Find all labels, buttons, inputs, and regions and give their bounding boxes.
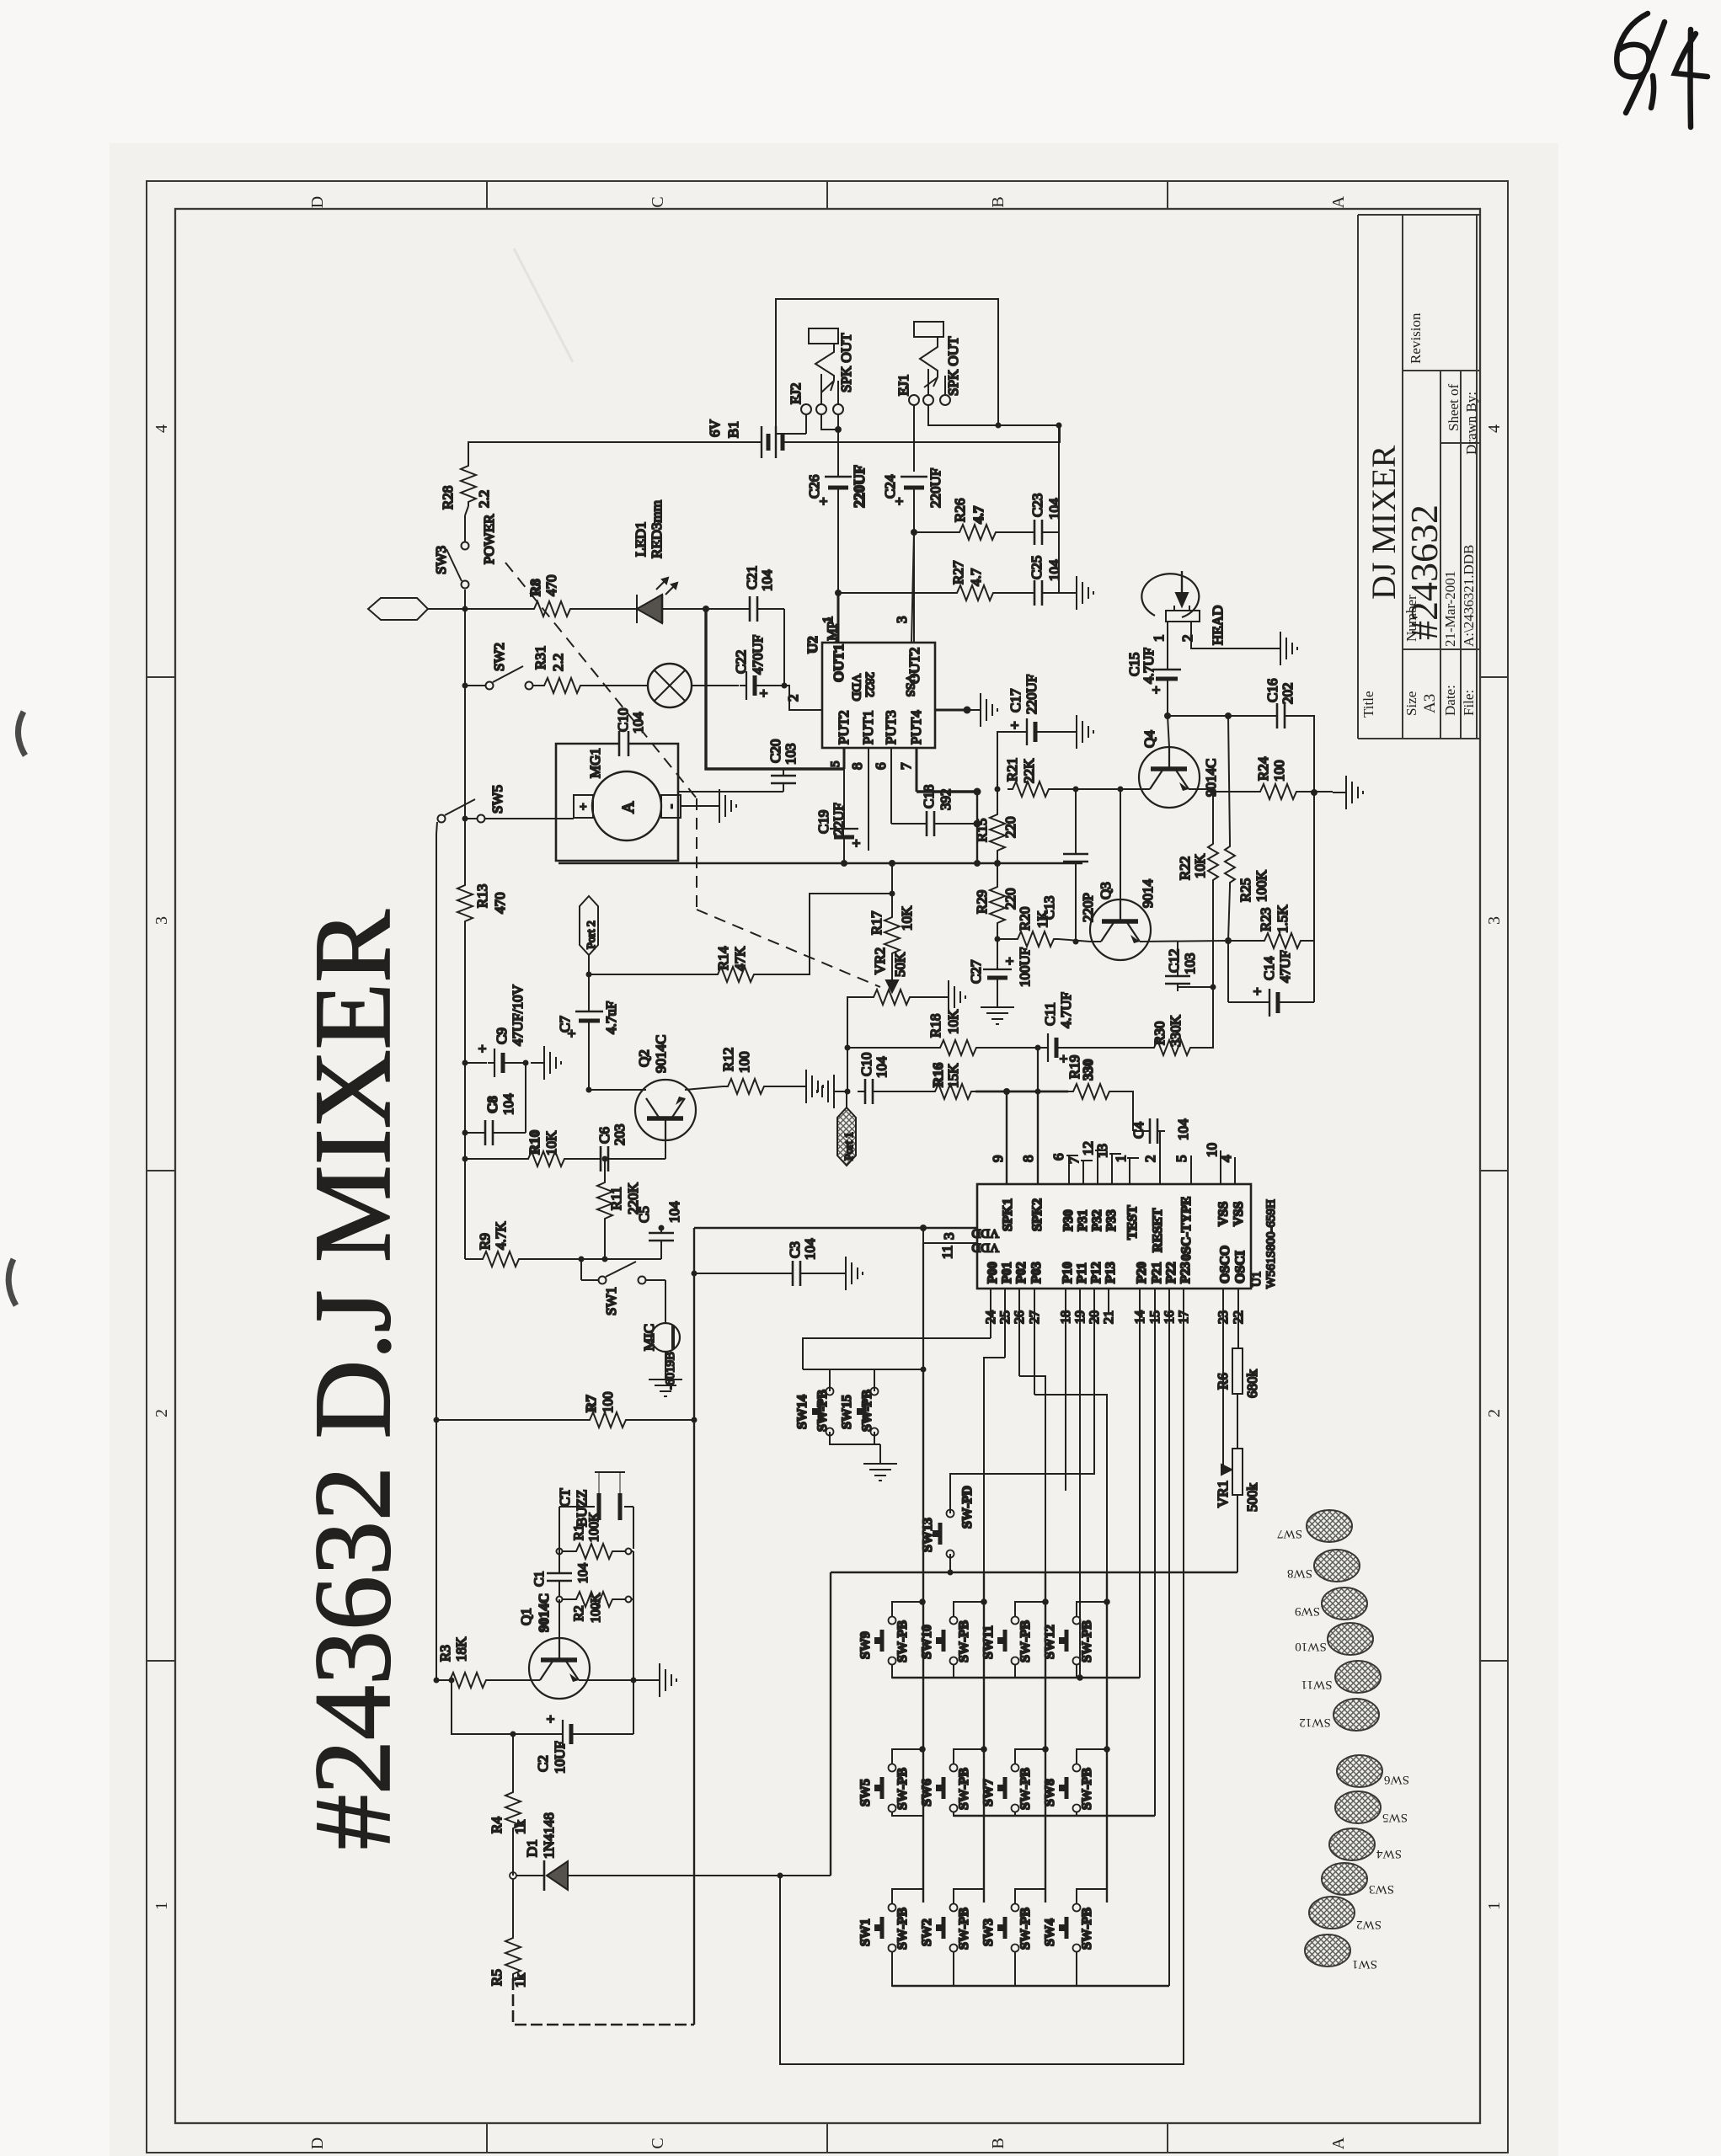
svg-text:104: 104 [1175,1118,1191,1140]
wire R23 left [1228,940,1259,942]
wire U1 pin10 stub [1220,1150,1221,1184]
resistor R6 box style [1232,1348,1243,1394]
svg-text:1: 1 [1485,1902,1504,1910]
svg-text:P00: P00 [986,1262,1000,1283]
svg-text:C7: C7 [557,1016,573,1033]
svg-text:P02: P02 [1014,1262,1029,1283]
svg-text:CT: CT [557,1488,573,1507]
svg-text:Sheet of: Sheet of [1446,383,1462,431]
svg-text:P03: P03 [1029,1262,1044,1283]
svg-text:470: 470 [543,575,559,597]
wire SW2 to R31 [533,685,539,686]
svg-text:4.7: 4.7 [970,505,986,524]
wire node to R24 [1213,791,1255,792]
svg-text:OSCI: OSCI [1233,1251,1248,1283]
wire U1 pin18 stub [1065,1289,1066,1491]
svg-text:C6: C6 [596,1127,612,1144]
wire pin25 link col2 [984,1358,1005,1572]
wire R8 to LED1 [575,608,637,610]
ground motor [706,789,736,823]
ground SW14 SW15 [879,1444,881,1450]
capacitor C17 polarized [1027,718,1035,745]
svg-text:MIC: MIC [641,1324,657,1351]
svg-text:R20: R20 [1017,907,1033,931]
pushbutton SW12 [1059,1617,1081,1665]
svg-text:SW-PB: SW-PB [1080,1620,1094,1662]
wire U1 pin22 stub [1237,1289,1239,1348]
wire C10 to R16 [880,1091,930,1092]
wire SW8 bottom hook [1077,1812,1107,1816]
wire C26 node to R27 [838,592,952,594]
svg-text:SPK2: SPK2 [1030,1198,1045,1231]
bold wire pin7 to right column [917,790,977,792]
wire right column down [1058,425,1060,532]
capacitor C2 polarized [556,1720,579,1748]
svg-text:SW-PB: SW-PB [895,1908,910,1950]
resistor R13 in rail [457,880,473,926]
svg-text:4.7uF: 4.7uF [603,1001,619,1034]
wire R10 to C6 [569,1158,593,1160]
svg-text:C12: C12 [1166,949,1182,973]
svg-text:R23: R23 [1258,908,1274,931]
LED LED1 [637,578,677,623]
transistor Q3 [1090,899,1151,960]
pad SW10 [1328,1623,1373,1655]
wire U1 pin12 stub [1097,1150,1098,1184]
svg-text:104: 104 [576,1563,591,1583]
wire U1 pin16 riser [1168,1289,1170,1986]
transistor Q2 [635,1080,696,1140]
node Q3 column top [1118,787,1124,792]
svg-text:104: 104 [802,1238,818,1260]
wire right column 940 to trunk [976,792,978,863]
wire C8 to corner [500,1132,526,1134]
svg-text:P12: P12 [1089,1262,1104,1283]
zone tick top B/A [1167,181,1168,209]
wire R26 to C23 [1000,531,1029,533]
svg-text:SW14: SW14 [795,1395,810,1429]
svg-text:C20: C20 [767,739,783,763]
wire R27 to C25 [997,592,1029,594]
svg-text:14: 14 [1133,1310,1147,1324]
svg-text:4: 4 [1485,424,1504,433]
jack EJ1 body [914,322,943,337]
svg-text:1.5K: 1.5K [1275,905,1291,933]
svg-text:330K: 330K [1168,1015,1184,1048]
svg-text:C11: C11 [1042,1002,1058,1026]
wire SW8 top hook [1077,1749,1107,1764]
svg-text:SW11: SW11 [981,1625,996,1659]
sheet inner border frame [175,209,1480,2123]
svg-text:R10: R10 [526,1130,542,1155]
svg-text:R22: R22 [1177,857,1193,880]
wire LED1 to bold node [662,608,706,610]
resistor R15 [990,809,1005,855]
node R17 column tap [890,891,895,897]
resistor R26 [954,525,1000,540]
capacitor C10 input [858,1079,880,1104]
motor enclosure box [556,744,678,861]
svg-text:21-Mar-2001: 21-Mar-2001 [1442,571,1458,647]
jack EJ2 contacts [801,404,811,414]
svg-text:R26: R26 [952,499,968,522]
node SW9 column [919,1598,926,1605]
svg-text:4.7UF: 4.7UF [1058,992,1074,1028]
svg-text:SW-PB: SW-PB [1018,1768,1033,1810]
svg-text:P30: P30 [1061,1209,1076,1231]
wire buzzer leads [559,1506,595,1508]
wire R17 to VR2 wiper arrow [891,958,893,984]
svg-text:16: 16 [1162,1310,1177,1324]
svg-text:R27: R27 [950,560,966,584]
pin12 tick [1095,1150,1107,1151]
wire SW6 bottom hook [954,1812,984,1816]
svg-text:W561S800-659H: W561S800-659H [1264,1199,1278,1289]
capacitor C23 [1027,520,1050,545]
svg-text:VR2: VR2 [872,947,888,974]
wire U1 pin17 riser [780,1289,1184,2064]
svg-text:Title: Title [1360,691,1376,718]
wire buzzer left column [559,1507,560,1568]
wire SW13 bottom to bus [949,1554,951,1572]
svg-text:TEST: TEST [1125,1205,1140,1240]
capacitor C21 [742,596,765,622]
svg-text:21: 21 [1102,1310,1116,1324]
svg-text:2822: 2822 [863,672,876,697]
capacitor C4 [1142,1118,1165,1144]
capacitor C24 polarized [901,477,927,643]
handwritten page number 6/14 [1617,13,1708,127]
wire C1 top [559,1554,560,1573]
wire U1 pin7 stub [1082,1161,1084,1184]
capacitor C19 polarized [830,822,858,845]
pushbutton SW3 [997,1904,1019,1952]
svg-text:104: 104 [666,1201,682,1223]
resistor R10 [523,1151,569,1166]
buzzer CT piezo [595,1472,625,1520]
svg-text:SW-PB: SW-PB [957,1908,971,1950]
wire Q2 emitter to R12 [685,1086,723,1090]
ground VR2 [935,980,965,1014]
svg-text:0SC-TYPE: 0SC-TYPE [1179,1197,1194,1261]
zone tick top D/C [486,181,488,209]
zone tick left 2/1 [147,1660,175,1662]
svg-text:19: 19 [1073,1310,1088,1324]
svg-text:+: + [756,689,772,697]
wire U1 pin6 stub [1068,1155,1070,1184]
svg-text:R24: R24 [1255,756,1271,781]
svg-text:A: A [619,801,638,814]
VR1 wiper arrow [1221,1465,1232,1475]
node trunk right column [974,860,981,867]
svg-text:SW6: SW6 [920,1779,934,1806]
wire right trunk down [1313,792,1315,941]
wire Q1 emitter to right column [579,1679,633,1681]
wire pin27 link col4 [1034,1395,1107,1572]
wire C23 to right column [1050,531,1059,533]
svg-text:22K: 22K [1021,758,1037,783]
svg-text:A: A [1329,195,1348,208]
wire SW1 bottom hook [892,1951,922,1986]
resistor R31 [539,678,585,693]
ground U2 VSS [967,693,997,727]
svg-text:470: 470 [492,893,508,915]
node R4 top [510,1732,516,1737]
wire SW4 bottom hook [1077,1951,1107,1986]
resistor R1 [571,1544,617,1559]
svg-text:7: 7 [898,762,914,770]
wire R7 right to riser [630,1419,694,1421]
pad SW5 [1335,1791,1381,1823]
scanner curl mark left edge upper [18,712,25,755]
wire VR2 left elbow [847,997,869,1091]
node rail C8 [462,1130,468,1136]
svg-text:P23: P23 [1179,1262,1193,1283]
svg-text:VSS: VSS [1216,1202,1231,1226]
wire U2 pin5 stub bottom [843,748,846,769]
wire R4 column top [512,1734,514,1787]
svg-text:+: + [542,1715,559,1723]
wire U2 pin7 stub [916,748,918,792]
resistor R22 [1208,839,1218,884]
wire motor to ground [681,805,706,807]
wire C24 node to R26 [914,531,954,533]
svg-text:104: 104 [630,712,646,734]
pad SW11 [1335,1661,1381,1693]
node R23 left [1225,937,1232,944]
node C26/R27 [835,590,842,596]
svg-text:C3: C3 [787,1241,803,1258]
wire trunk to R3 [436,1679,445,1681]
trunk horizontal py1025 [559,862,1082,864]
svg-text:P31: P31 [1076,1209,1090,1231]
svg-text:SW8: SW8 [1043,1779,1057,1806]
svg-text:SW-PB: SW-PB [895,1620,910,1662]
svg-text:4.7UF: 4.7UF [1141,648,1157,684]
svg-text:PUT1: PUT1 [860,710,876,744]
svg-text:SW-PB: SW-PB [1080,1768,1094,1810]
wire Port1 stub [846,1091,847,1107]
svg-text:1k: 1k [512,1820,528,1835]
IC U2 amplifier box [822,643,935,748]
bold wire pin5 to left [706,609,844,769]
svg-text:B1: B1 [725,421,741,438]
svg-text:#243632: #243632 [1403,504,1446,640]
svg-text:C14: C14 [1261,956,1277,980]
title block outline [1358,215,1480,739]
wire R19 right to C4 corner [1114,1091,1133,1131]
wire U1 pin5 stub [1190,1155,1192,1184]
wire R17 column [891,863,893,912]
svg-text:R7: R7 [583,1395,599,1412]
svg-text:U2: U2 [804,636,820,654]
wire C18 row left [891,823,919,825]
power net arrow flag [368,598,428,620]
wire bus left drop to D1 row [830,1572,831,1876]
wire Q2 base down [665,1139,666,1159]
svg-text:SW3: SW3 [433,546,449,574]
node R11 bottom [602,1257,608,1262]
svg-text:18K: 18K [453,1636,469,1662]
wire SW10 top hook [954,1602,984,1617]
pushbutton SW4 [1059,1904,1081,1952]
wire VDD riser [693,1228,695,1420]
wire right column C23 to C25 [1058,532,1060,593]
svg-text:+: + [848,839,864,847]
wire R14 up to R17 tap [758,894,890,974]
svg-text:R29: R29 [974,890,990,914]
svg-text:C27: C27 [968,959,984,984]
wire C21 to corner [765,608,784,610]
wire SW1 to MIC [665,1280,666,1323]
svg-text:+: + [1249,987,1265,995]
svg-text:4: 4 [1218,1155,1234,1162]
svg-text:Date:: Date: [1442,685,1458,716]
capacitor C18 [919,811,942,836]
jack enclosure loop [776,299,998,434]
svg-text:6: 6 [873,763,889,771]
wire U1 pin2 RESET stub [1159,1131,1161,1184]
svg-text:SPK OUT: SPK OUT [838,333,854,392]
capacitor C13 [1063,846,1088,869]
svg-text:R6: R6 [1215,1373,1231,1390]
svg-text:1: 1 [1113,1155,1129,1163]
svg-text:RESET: RESET [1151,1208,1165,1252]
svg-text:1k: 1k [512,1973,528,1988]
svg-text:B: B [989,2137,1007,2148]
svg-text:C26: C26 [806,475,822,499]
wire SW11 top hook [1015,1602,1045,1617]
svg-text:R21: R21 [1004,758,1020,782]
zone tick right 4/3 [1480,676,1508,678]
svg-text:3: 3 [894,616,910,624]
wire R22 bottom through row to node 1172 [1212,884,1214,987]
wire matrix row line P21 [954,1815,1155,1817]
svg-text:A3: A3 [1421,694,1439,713]
svg-text:SW7: SW7 [981,1779,996,1806]
svg-text:DJ MIXER: DJ MIXER [1365,445,1403,600]
svg-text:P01: P01 [1000,1262,1014,1283]
svg-text:C4: C4 [1130,1122,1146,1139]
svg-text:104: 104 [874,1056,890,1078]
capacitor C27 polarized [983,963,1012,985]
wire MIC to ground [665,1352,666,1366]
svg-text:100: 100 [1271,760,1287,782]
svg-text:SW7: SW7 [1277,1527,1303,1540]
wire SW1 drop [580,1259,582,1280]
wire SW10 bottom hook [954,1664,984,1678]
svg-text:2.2: 2.2 [476,490,492,508]
wire C15 to Q4 node [1167,679,1168,716]
svg-text:13: 13 [1094,1144,1110,1158]
resistor R25 [1225,841,1235,887]
svg-text:RED3mm: RED3mm [649,500,665,558]
wire U1 pin11 jog [923,1228,977,1243]
svg-text:SW10: SW10 [920,1625,934,1659]
svg-text:+: + [1002,957,1018,965]
ground R24 [1333,776,1363,809]
svg-text:SW4: SW4 [1376,1847,1403,1860]
wire R6 to VR1 [1237,1394,1238,1449]
svg-text:47UF/10V: 47UF/10V [510,985,526,1046]
svg-text:50K: 50K [892,952,908,977]
jack EJ1 prong [920,337,938,377]
wire C9 to corner [510,1062,526,1064]
rail below R13 [464,926,466,1259]
wire C5 top to VDD wire [660,1225,662,1228]
pushbutton SW10 [936,1617,958,1665]
ground R16 row left [817,1075,847,1108]
svg-text:5: 5 [829,761,842,768]
svg-text:OUT2: OUT2 [906,648,922,684]
pushbutton SW14 [812,1388,834,1436]
svg-text:680k: 680k [1244,1369,1260,1399]
wire R5 bottom row [513,1978,694,2025]
wire SW5 right to motor box [485,818,574,819]
node rail R10 [462,1156,468,1162]
svg-text:R4: R4 [489,1817,505,1833]
pad SW1 [1305,1935,1350,1967]
wire C8 row [465,1132,478,1134]
capacitor C9 polarized [488,1049,510,1077]
svg-text:C23: C23 [1029,494,1045,517]
wire C4 left [1133,1130,1142,1132]
pad SW8 [1314,1550,1360,1582]
capacitor C16 [1269,703,1292,728]
resistor R28 [461,461,476,506]
svg-text:PUT2: PUT2 [836,710,852,744]
pin7 tick [1081,1160,1093,1161]
wire R11 top [604,1159,606,1177]
wire C16 to right trunk [1292,716,1314,792]
svg-text:C: C [649,2137,667,2148]
svg-text:C19: C19 [815,810,831,834]
svg-text:Port 1: Port 1 [843,1132,856,1161]
wire SW11 bottom hook [1015,1664,1045,1678]
jack EJ1 contacts [909,395,919,405]
pushbutton SW2 [936,1904,958,1952]
svg-text:15K: 15K [945,1063,961,1088]
svg-text:C10: C10 [858,1053,874,1076]
node SW rail pin11 [921,1367,927,1373]
zone tick top C/B [826,181,828,209]
bus wire py1867 [831,1572,1237,1573]
svg-text:SW15: SW15 [840,1395,854,1429]
pushbutton SW11 [997,1617,1019,1665]
svg-text:A: A [1329,2137,1348,2149]
svg-text:23: 23 [1216,1310,1231,1324]
svg-text:P13: P13 [1104,1262,1118,1283]
svg-text:SPK1: SPK1 [1001,1198,1015,1231]
wire C11 to R30 [1064,1047,1149,1049]
resistor R20 [1013,931,1058,947]
wire C25 to ground [1050,592,1063,594]
ground C27 [981,994,1014,1024]
svg-text:D: D [308,2137,327,2149]
svg-text:20: 20 [1088,1310,1102,1324]
wire Port2 to R14 row [588,955,590,974]
svg-text:C1: C1 [532,1571,547,1587]
svg-text:SW2: SW2 [1356,1918,1382,1931]
svg-text:22: 22 [1232,1310,1246,1324]
svg-text:2.2: 2.2 [550,654,566,671]
node row1 pin19 [1077,1674,1083,1681]
wire R31 to lamp [585,685,649,686]
wire R21 to Q4 collector lead [1053,788,1120,790]
wire C17 row [997,732,1027,789]
svg-text:3: 3 [941,1233,957,1241]
zone tick bottom C/B [826,2123,828,2153]
